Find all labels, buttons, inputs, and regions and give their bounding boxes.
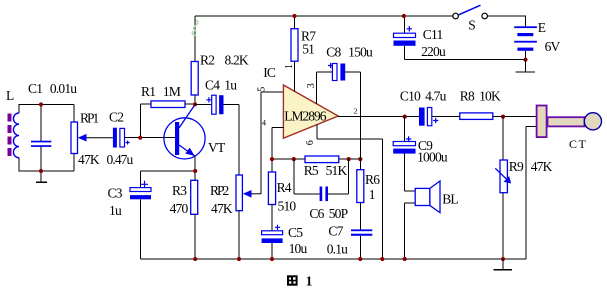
svg-text:51: 51 xyxy=(302,42,314,57)
wire C3 to ground rail xyxy=(139,199,141,259)
svg-text:E: E xyxy=(538,20,546,35)
resistor R3 xyxy=(191,180,198,259)
node emitter xyxy=(193,169,197,173)
node R3 ground xyxy=(193,257,197,261)
svg-text:R5 51K: R5 51K xyxy=(304,163,348,178)
capacitor C10 electrolytic xyxy=(419,108,460,126)
resistor R1 xyxy=(151,101,185,108)
svg-text:3: 3 xyxy=(306,83,317,88)
op-amp IC LM2896 xyxy=(283,85,338,138)
svg-text:1: 1 xyxy=(369,187,375,202)
node R9 ground xyxy=(501,257,505,261)
svg-text:R3: R3 xyxy=(172,183,187,198)
svg-text:RP1: RP1 xyxy=(80,110,99,125)
svg-text:R8 10K: R8 10K xyxy=(460,88,501,103)
node C6 right xyxy=(347,157,351,161)
wire pin4 to feedback node xyxy=(272,128,283,173)
ferrite rod (dashed) xyxy=(8,114,12,157)
svg-text:VT: VT xyxy=(208,140,226,155)
svg-text:RP2: RP2 xyxy=(210,183,229,198)
svg-text:R2 8.2K: R2 8.2K xyxy=(200,52,249,67)
resistor R8 xyxy=(460,113,536,120)
wire R1 right lead xyxy=(185,103,195,105)
capacitor C11 electrolytic xyxy=(394,16,416,60)
svg-text:4: 4 xyxy=(262,118,266,127)
node R7 top xyxy=(292,14,296,18)
resistor R7 with leads xyxy=(291,16,298,91)
capacitor C1 xyxy=(31,141,51,147)
svg-text:CT: CT xyxy=(569,137,587,151)
node BL ground xyxy=(403,257,407,261)
inductor L coil xyxy=(13,113,19,158)
node tank top xyxy=(39,102,43,106)
wire switch to battery xyxy=(488,16,527,28)
svg-text:S: S xyxy=(468,17,475,32)
wire C4 to RP2 xyxy=(238,104,240,175)
capacitor C5 electrolytic xyxy=(262,205,283,260)
wire output pin2 xyxy=(338,116,419,118)
potentiometer RP2 xyxy=(236,175,261,259)
svg-text:220u: 220u xyxy=(421,44,446,59)
svg-text:10u: 10u xyxy=(289,241,308,256)
node C5 ground xyxy=(270,257,274,261)
svg-text:C10 4.7u: C10 4.7u xyxy=(400,88,447,103)
node base xyxy=(138,136,142,140)
node output C9/C10 xyxy=(403,115,407,119)
node C6 left xyxy=(292,157,296,161)
wire RP2 wiper to pin5 xyxy=(261,92,283,194)
ground (battery) xyxy=(516,60,535,72)
svg-text:5: 5 xyxy=(257,87,268,92)
capacitor C7 xyxy=(351,229,372,259)
wire earphone bottom contact xyxy=(526,127,536,260)
node collector xyxy=(193,102,197,106)
earphone plug CT xyxy=(537,106,602,138)
capacitor C9 electrolytic xyxy=(393,117,415,191)
node RP2 ground xyxy=(237,257,241,261)
svg-text:1: 1 xyxy=(284,64,295,69)
wire C2 to base node xyxy=(125,137,141,139)
ground (tank) xyxy=(36,171,47,182)
svg-text:C2: C2 xyxy=(109,109,123,124)
svg-text:1: 1 xyxy=(306,273,313,288)
wire negative rail C11 to battery xyxy=(404,59,525,61)
node R8/R9 xyxy=(501,115,505,119)
wire base xyxy=(140,137,175,139)
wire bottom ground rail xyxy=(140,258,526,260)
svg-text:R1 1M: R1 1M xyxy=(141,84,181,99)
svg-text:C8 150u: C8 150u xyxy=(326,44,373,59)
svg-text:510: 510 xyxy=(278,199,297,214)
svg-text:L: L xyxy=(6,88,14,103)
svg-text:C4 1u: C4 1u xyxy=(205,78,237,93)
node pin4/R4 xyxy=(270,157,274,161)
svg-text:C7: C7 xyxy=(328,223,343,238)
capacitor C6 loop xyxy=(294,159,349,201)
svg-text:1u: 1u xyxy=(109,203,122,218)
wire tank circuit loop xyxy=(19,104,74,172)
node pin6 ground xyxy=(380,257,384,261)
capacitor C3 electrolytic xyxy=(130,181,151,200)
svg-text:C6 50P: C6 50P xyxy=(309,206,347,221)
transistor VT xyxy=(164,104,205,159)
wire emitter to C3 xyxy=(140,171,195,188)
node C11 top xyxy=(402,14,406,18)
caption 图 1 xyxy=(287,273,313,288)
svg-text:0.1u: 0.1u xyxy=(327,242,348,257)
battery E xyxy=(514,26,537,51)
capacitor C8 electrolytic xyxy=(328,63,360,81)
potentiometer RP1 xyxy=(71,122,113,154)
svg-text:LM2896: LM2896 xyxy=(284,109,327,124)
svg-text:C3: C3 xyxy=(108,186,123,201)
wire R1 left lead xyxy=(140,104,151,138)
wire pin3 xyxy=(317,72,332,104)
wire emitter down xyxy=(194,156,196,180)
svg-text:C11: C11 xyxy=(423,27,443,42)
wire battery bottom xyxy=(525,51,527,60)
switch S xyxy=(453,5,488,19)
resistor R5 xyxy=(305,156,339,163)
svg-text:R9: R9 xyxy=(509,159,524,174)
ground (bottom right) xyxy=(494,259,512,270)
wire C8 down to feedback rail xyxy=(359,72,361,159)
svg-text:6V: 6V xyxy=(545,39,561,54)
rheostat R9 xyxy=(495,117,511,259)
resistor R4 xyxy=(268,172,275,205)
speaker BL xyxy=(405,181,440,259)
wire pin6 to ground xyxy=(317,125,383,260)
svg-text:2: 2 xyxy=(354,107,358,116)
svg-text:R4: R4 xyxy=(277,180,292,195)
svg-text:1000u: 1000u xyxy=(417,150,448,165)
capacitor C4 electrolytic xyxy=(195,95,239,114)
svg-text:47K: 47K xyxy=(78,152,100,167)
svg-text:0.47u: 0.47u xyxy=(107,152,134,167)
svg-text:47K: 47K xyxy=(531,159,553,174)
wire top power rail xyxy=(195,15,453,17)
svg-text:R6: R6 xyxy=(365,172,380,187)
capacitor C2 electrolytic xyxy=(113,128,130,148)
svg-text:C5: C5 xyxy=(288,225,303,240)
svg-text:BL: BL xyxy=(442,191,458,206)
svg-text:470: 470 xyxy=(170,201,189,216)
node R6 top xyxy=(358,157,362,161)
svg-text:6: 6 xyxy=(305,140,316,145)
node tank bottom xyxy=(39,169,43,173)
resistor R2 with leads xyxy=(191,16,198,105)
node C7 ground xyxy=(358,257,362,261)
svg-text:C1 0.01u: C1 0.01u xyxy=(28,81,77,96)
svg-text:47K: 47K xyxy=(211,201,233,216)
svg-text:IC: IC xyxy=(263,65,276,80)
faint green artifact xyxy=(192,20,197,35)
node battery negative xyxy=(523,58,527,62)
wire feedback rail xyxy=(272,158,360,160)
resistor R6 xyxy=(357,159,364,229)
